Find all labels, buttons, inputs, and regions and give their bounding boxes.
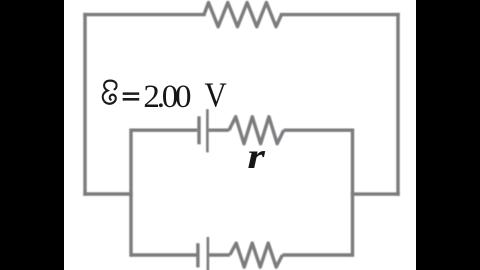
svg-text:V: V xyxy=(205,77,227,115)
resistor R2 (bottom internal resistance) xyxy=(230,243,283,267)
wire: bottom branch right lead xyxy=(282,253,352,256)
battery B2 negative plate (short) xyxy=(196,243,199,267)
resistor r (internal resistance) xyxy=(229,117,284,144)
battery B2 positive plate (long) xyxy=(207,237,210,270)
label: "=" sign of EMF value xyxy=(123,92,140,100)
wire: outer left vertical xyxy=(83,15,86,194)
battery B1 positive plate (long) xyxy=(206,109,209,152)
wire: middle lead between battery B1 and resistor r xyxy=(209,128,229,131)
resistor R1 (top external resistor) xyxy=(204,3,282,27)
battery B1 negative plate (short) xyxy=(197,116,200,144)
wire: bottom lead between battery B2 and bottom resistor xyxy=(209,253,230,256)
wire: inner right vertical xyxy=(351,130,354,255)
node B: right junction jog wire xyxy=(353,192,399,195)
svg-text:r: r xyxy=(247,136,266,176)
wire: inner left vertical xyxy=(129,130,132,255)
wire: outer top-right segment xyxy=(282,13,399,16)
wire: middle branch left lead xyxy=(131,128,197,131)
label: script-E EMF symbol of "ℰ = 2.00 V" xyxy=(103,81,117,104)
svg-text:2.00: 2.00 xyxy=(143,79,191,115)
wire: middle branch right lead xyxy=(284,128,353,131)
wire: bottom branch left lead xyxy=(131,253,197,256)
node A: left junction jog wire xyxy=(85,192,131,195)
wire: outer right vertical xyxy=(396,15,399,195)
wire: outer top-left segment xyxy=(85,13,204,16)
